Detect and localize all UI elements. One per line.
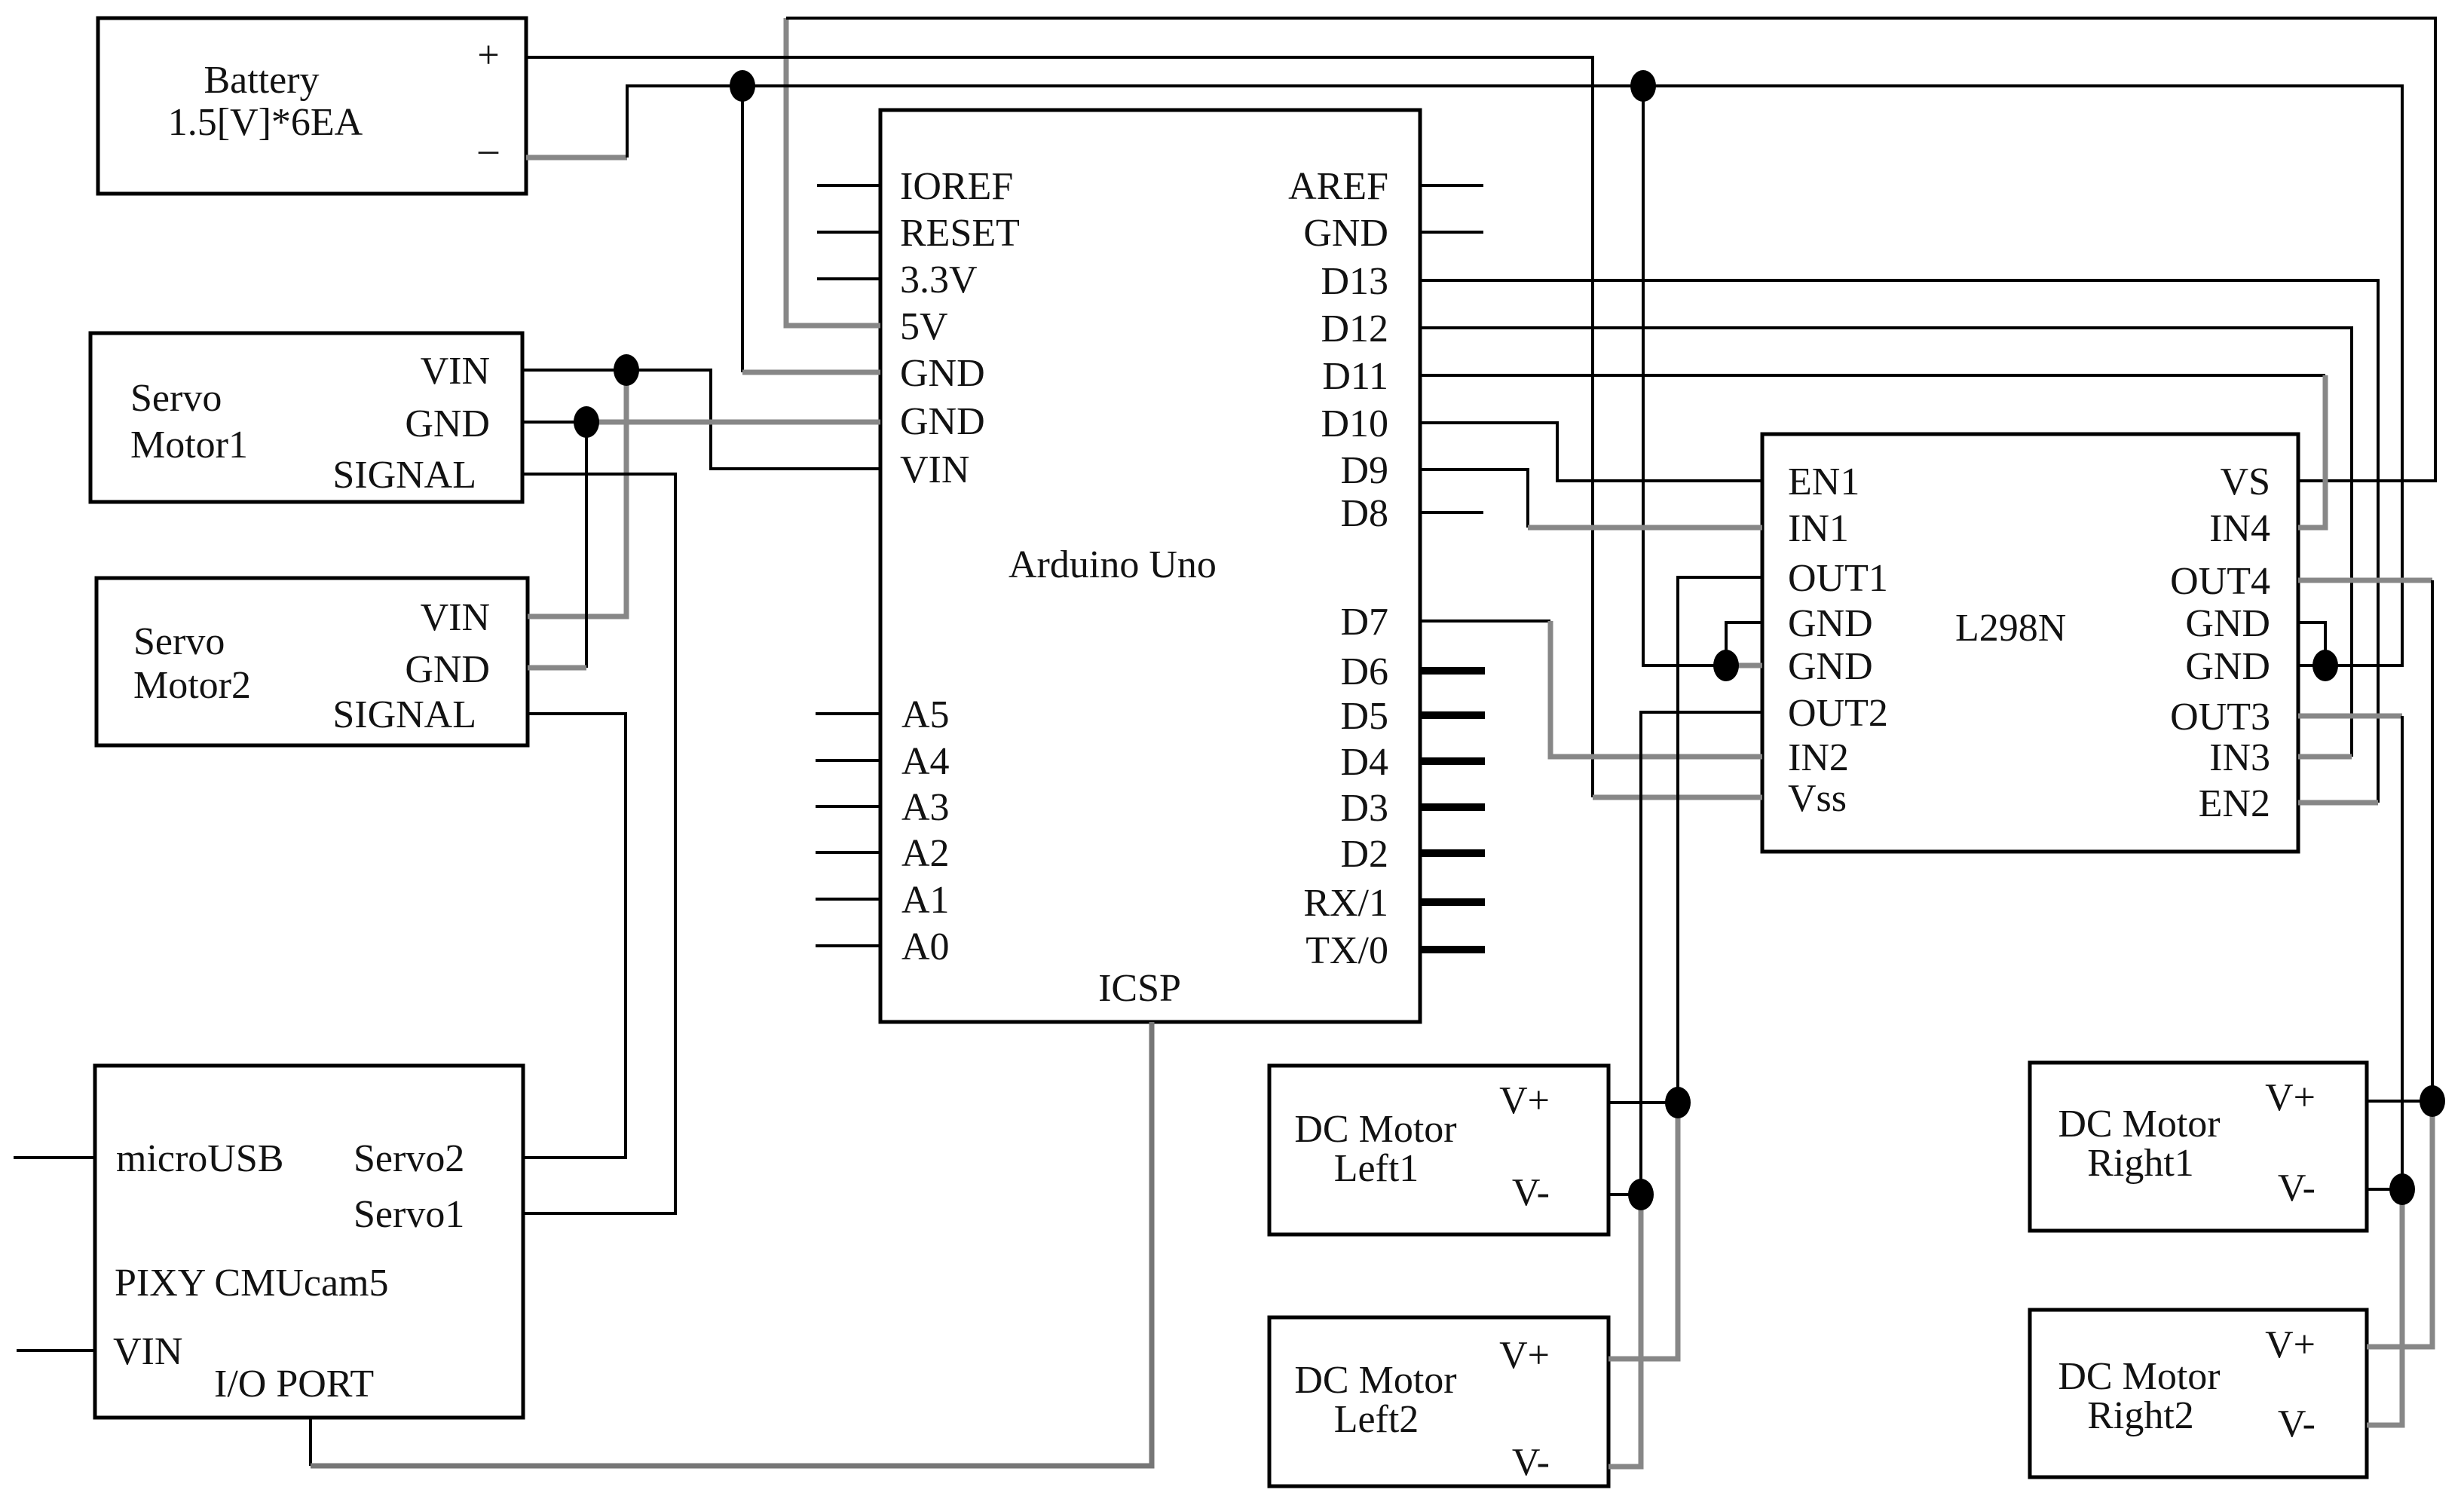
svg-text:OUT1: OUT1 [1788, 557, 1888, 600]
wire I/O PORT drop [309, 1418, 312, 1466]
svg-text:V-: V- [2278, 1403, 2316, 1445]
svg-text:EN2: EN2 [2199, 782, 2270, 825]
svg-text:Motor2: Motor2 [133, 664, 251, 707]
Arduino pin stub 3.3V [817, 277, 880, 280]
Arduino left pin labels [900, 165, 1020, 968]
svg-text:ICSP: ICSP [1098, 967, 1181, 1010]
svg-text:RX/1: RX/1 [1303, 882, 1388, 925]
wire right motor1 V- to right motor2 V- gray [2367, 1189, 2402, 1425]
svg-text:Left2: Left2 [1334, 1398, 1419, 1441]
svg-text:VS: VS [2221, 460, 2270, 503]
wire 5V pin gray segment [786, 18, 880, 326]
svg-text:Arduino Uno: Arduino Uno [1009, 543, 1217, 586]
svg-text:D3: D3 [1340, 787, 1388, 830]
svg-text:Servo2: Servo2 [354, 1137, 464, 1180]
svg-text:GND: GND [405, 648, 490, 691]
svg-text:V+: V+ [2265, 1076, 2316, 1119]
Arduino pin stub D6 thick [1422, 667, 1485, 675]
servo motor 1 box [90, 333, 522, 502]
Arduino pin stub D2 thick [1422, 849, 1485, 857]
wire ground branch to Arduino GND1 [741, 86, 744, 372]
junction dot ground bus at Arduino [730, 70, 755, 102]
svg-text:microUSB: microUSB [116, 1137, 283, 1180]
svg-text:SIGNAL: SIGNAL [332, 693, 476, 736]
Arduino pin stub D5 thick [1422, 711, 1485, 719]
wire servo GND branch down [585, 422, 588, 668]
wire microUSB stub [14, 1156, 95, 1159]
svg-text:SIGNAL: SIGNAL [332, 454, 476, 497]
junction dot servo VIN [614, 354, 639, 386]
junction dot left motor1 V+ [1665, 1087, 1691, 1118]
junction dot right motor1 V- [2389, 1173, 2415, 1205]
svg-text:EN1: EN1 [1788, 460, 1859, 503]
svg-text:PIXY CMUcam5: PIXY CMUcam5 [115, 1262, 389, 1305]
wire right motor1 V- stub [2367, 1188, 2402, 1191]
svg-text:DC Motor: DC Motor [1294, 1359, 1456, 1402]
wire D11 to IN4 gray segment [2298, 375, 2325, 528]
junction dot right motor1 V+ [2420, 1085, 2445, 1117]
Arduino pin stub A2 [816, 851, 880, 854]
wire PIXY VIN stub [17, 1349, 95, 1352]
junction dot left motor1 V- [1628, 1179, 1654, 1210]
wire OUT4 to right motor1 V+ [2298, 578, 2432, 583]
wire servo2 SIGNAL to PIXY Servo2 [523, 714, 626, 1158]
svg-text:Left1: Left1 [1334, 1147, 1419, 1190]
svg-text:IN2: IN2 [1788, 736, 1849, 779]
wire D13 to EN2 [1420, 280, 2378, 803]
svg-text:L298N: L298N [1955, 607, 2066, 650]
wire left motor1 V- to left motor2 V- gray [1608, 1195, 1641, 1467]
svg-text:Motor1: Motor1 [130, 424, 248, 467]
svg-text:Vss: Vss [1788, 777, 1847, 820]
junction dot L298N right GND [2312, 650, 2338, 681]
svg-text:A3: A3 [901, 786, 950, 829]
wire EN2 gray segment [2298, 800, 2378, 806]
DC motor left1 box [1269, 1066, 1608, 1234]
Arduino pin stub IOREF [817, 184, 880, 187]
svg-text:Right1: Right1 [2087, 1142, 2194, 1185]
svg-text:D7: D7 [1340, 601, 1388, 644]
svg-text:IOREF: IOREF [900, 165, 1013, 208]
wire servo2 GND gray stub [528, 665, 586, 671]
Arduino pin stub RX/1 thick [1422, 898, 1485, 906]
svg-text:D10: D10 [1321, 402, 1388, 445]
wire servo VIN net to Arduino VIN [522, 370, 880, 469]
svg-text:IN4: IN4 [2209, 507, 2270, 550]
svg-text:A5: A5 [901, 693, 950, 736]
svg-text:DC Motor: DC Motor [2058, 1103, 2220, 1146]
svg-text:V-: V- [2278, 1167, 2316, 1210]
svg-text:VIN: VIN [421, 596, 490, 639]
svg-text:5V: 5V [900, 305, 948, 348]
svg-text:+: + [477, 34, 499, 77]
wire right motor1 V+ to right motor2 V+ gray [2367, 1101, 2432, 1347]
Arduino pin stub D8 [1420, 511, 1483, 514]
Arduino pin stub D4 thick [1422, 757, 1485, 765]
wire OUT3 to right motor1 V- [2298, 714, 2402, 719]
svg-text:–: – [478, 128, 499, 171]
wire L298N right GND1 jog [2298, 623, 2325, 665]
svg-text:D8: D8 [1340, 492, 1388, 535]
wire servo2 VIN gray branch [528, 370, 626, 616]
svg-text:I/O PORT: I/O PORT [214, 1363, 374, 1406]
wire OUT2 to left motor1 V- [1641, 712, 1762, 1195]
PIXY CMUcam5 box [95, 1066, 523, 1418]
svg-text:GND: GND [2185, 602, 2270, 645]
svg-text:Servo: Servo [133, 620, 225, 663]
svg-text:V-: V- [1512, 1441, 1550, 1484]
wire left motor1 V+ to left motor2 V+ gray [1608, 1103, 1678, 1359]
Arduino pin stub GND top right [1420, 231, 1483, 234]
Arduino pin stub A4 [816, 759, 880, 762]
Arduino right pin labels [1288, 165, 1388, 972]
svg-text:GND: GND [900, 352, 985, 395]
svg-text:D11: D11 [1322, 355, 1388, 398]
DC motor right2 box [2030, 1310, 2367, 1477]
svg-text:D9: D9 [1340, 449, 1388, 492]
svg-text:VIN: VIN [421, 350, 490, 393]
wire battery minus gray stub [526, 155, 627, 161]
Arduino pin stub A0 [816, 944, 880, 947]
junction dot servo GND [574, 406, 599, 438]
wire battery plus to L298N Vss [526, 57, 1593, 797]
svg-text:D4: D4 [1340, 741, 1388, 784]
wire servo1 SIGNAL to PIXY Servo1 [522, 474, 675, 1213]
DC motor right1 box [2030, 1063, 2367, 1231]
wire right motor1 V+ stub [2367, 1100, 2432, 1103]
svg-text:GND: GND [1788, 602, 1873, 645]
wire servo GND to Arduino GND2 gray [586, 420, 880, 425]
wire IN3 gray segment [2298, 754, 2352, 760]
svg-text:VIN: VIN [900, 448, 969, 491]
wire left motor1 V- stub [1608, 1193, 1641, 1196]
L298N right pin labels [2170, 460, 2270, 825]
svg-text:GND: GND [900, 400, 985, 443]
svg-text:TX/0: TX/0 [1305, 929, 1388, 972]
svg-text:GND: GND [2185, 645, 2270, 688]
wire D11 stub [1420, 374, 2325, 377]
svg-text:AREF: AREF [1288, 165, 1388, 208]
svg-text:OUT4: OUT4 [2170, 560, 2270, 603]
wire D10 to EN1 [1420, 423, 1762, 481]
Arduino pin stub RESET [817, 231, 880, 234]
wire battery minus ground bus [627, 86, 2402, 665]
Arduino pin stub A3 [816, 805, 880, 808]
svg-text:IN3: IN3 [2209, 736, 2270, 779]
svg-text:A0: A0 [901, 925, 950, 968]
wire D9 to IN1 [1420, 470, 1528, 528]
svg-text:V+: V+ [1499, 1079, 1550, 1122]
wire left motor1 V+ stub [1608, 1101, 1678, 1104]
DC motor left2 box [1269, 1317, 1608, 1486]
svg-text:GND: GND [1788, 645, 1873, 688]
svg-text:IN1: IN1 [1788, 507, 1849, 550]
wire IN1 gray segment [1528, 525, 1762, 531]
Arduino pin stub AREF [1420, 184, 1483, 187]
wire D7 to IN2 gray segment [1550, 621, 1762, 757]
svg-text:Servo: Servo [130, 377, 222, 420]
svg-text:DC Motor: DC Motor [2058, 1355, 2220, 1398]
svg-text:D2: D2 [1340, 833, 1388, 876]
svg-text:GND: GND [405, 402, 490, 445]
wire ground branch to L298N left GND [1643, 86, 1726, 665]
svg-text:A4: A4 [901, 740, 950, 783]
Arduino pin stub A5 [816, 712, 880, 715]
svg-text:Servo1: Servo1 [354, 1193, 464, 1236]
svg-text:3.3V: 3.3V [900, 259, 978, 301]
svg-text:D12: D12 [1321, 307, 1388, 350]
servo motor 2 box [96, 578, 528, 745]
svg-text:Battery: Battery [204, 59, 319, 102]
L298N left pin labels [1788, 460, 1888, 820]
wire L298N left GND2 gray stub [1726, 663, 1762, 668]
battery BT1 box [98, 18, 526, 194]
wire 5V to L298N VS [786, 18, 2435, 481]
svg-text:A2: A2 [901, 832, 950, 875]
wire D7 stub [1420, 619, 1550, 623]
Arduino pin stub TX/0 thick [1422, 946, 1485, 953]
Arduino pin stub A1 [816, 898, 880, 901]
svg-text:Right2: Right2 [2087, 1394, 2194, 1437]
svg-text:D6: D6 [1340, 650, 1388, 693]
Arduino Uno U1 box [880, 110, 1420, 1022]
svg-text:D13: D13 [1321, 260, 1388, 303]
wire servo1 GND stub [522, 421, 586, 424]
L298N U2 box [1762, 434, 2298, 852]
svg-text:DC Motor: DC Motor [1294, 1108, 1456, 1151]
junction dot L298N left GND [1713, 650, 1739, 681]
svg-text:1.5[V]*6EA: 1.5[V]*6EA [168, 101, 363, 144]
Arduino pin stub D3 thick [1422, 803, 1485, 811]
svg-text:V+: V+ [2265, 1323, 2316, 1366]
svg-text:A1: A1 [901, 879, 950, 922]
svg-text:V+: V+ [1499, 1334, 1550, 1377]
svg-text:OUT3: OUT3 [2170, 696, 2270, 739]
wire D12 to IN3 [1420, 328, 2352, 757]
svg-text:VIN: VIN [113, 1330, 182, 1373]
wire Vss gray segment [1593, 795, 1762, 800]
svg-text:OUT2: OUT2 [1788, 692, 1888, 735]
wire I/O PORT to ICSP [311, 1022, 1152, 1466]
svg-text:GND: GND [1303, 212, 1388, 255]
wire L298N left GND1 jog [1726, 623, 1762, 665]
junction dot ground bus at L298N [1630, 70, 1656, 102]
wire OUT1 to left motor1 V+ [1678, 577, 1762, 1103]
svg-text:D5: D5 [1340, 695, 1388, 738]
svg-text:RESET: RESET [900, 212, 1020, 255]
svg-text:V-: V- [1512, 1171, 1550, 1214]
wire Arduino GND1 gray segment [742, 370, 880, 375]
